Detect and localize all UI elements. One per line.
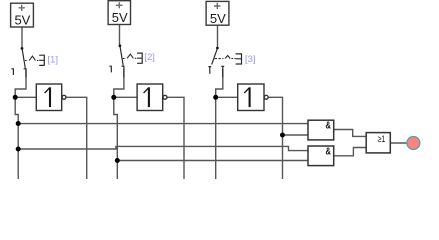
svg-text:5V: 5V — [14, 13, 30, 28]
svg-text:&: & — [326, 146, 331, 157]
svg-text:[1]: [1] — [47, 54, 58, 65]
svg-text:&: & — [326, 120, 331, 131]
svg-text:[3]: [3] — [245, 54, 256, 65]
svg-text:≥1: ≥1 — [378, 134, 386, 145]
svg-text:5V: 5V — [210, 11, 226, 26]
svg-text:[2]: [2] — [144, 52, 155, 63]
svg-text:5V: 5V — [112, 10, 128, 25]
